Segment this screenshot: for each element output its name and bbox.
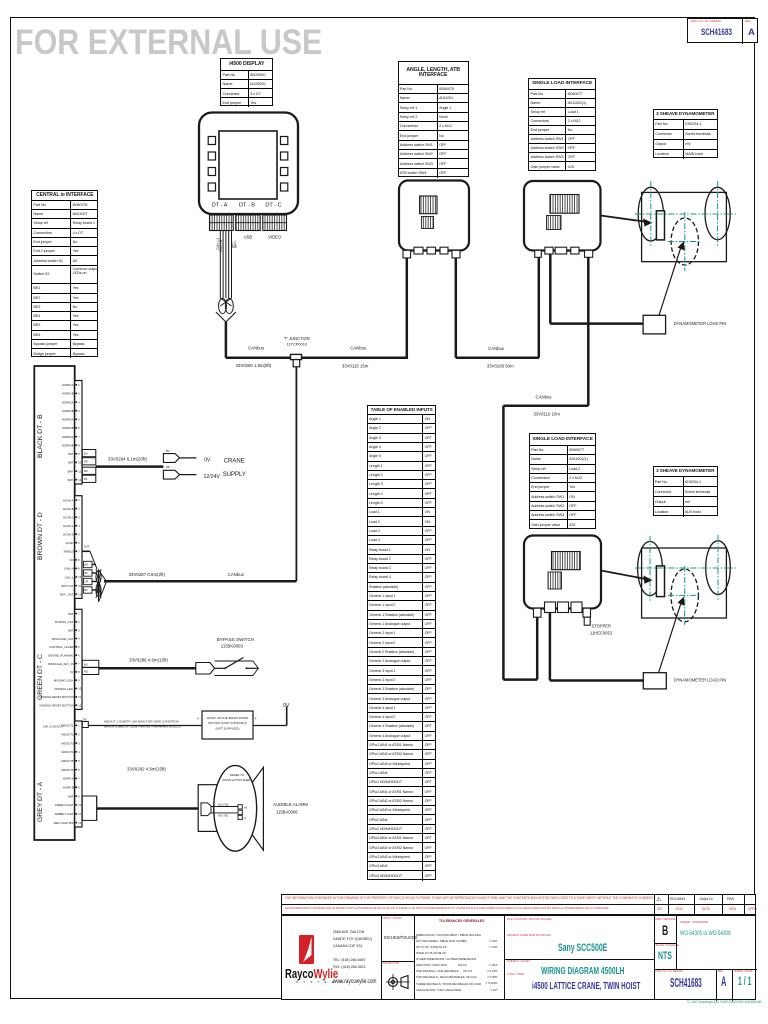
svg-text:HORN4B: HORN4B <box>62 443 74 447</box>
svg-text:BN: BN <box>85 564 89 567</box>
svg-text:HORN2B: HORN2B <box>62 409 74 413</box>
3 sheave dynamometer MAIN hoist <box>638 187 730 265</box>
svg-text:HIDOUT5: HIDOUT5 <box>61 759 74 763</box>
svg-text:(WHICH COMES UP CB 88 THAN: (WHICH COMES UP CB 88 THAN A/B THWANPAWS… <box>104 724 181 728</box>
svg-text:HORN3A: HORN3A <box>62 418 74 422</box>
disclaimer notice band <box>281 894 756 915</box>
dynamometer load pin box AUX <box>643 597 726 689</box>
svg-text:1155K0003: 1155K0003 <box>221 644 244 649</box>
svg-text:11HEC0053: 11HEC0053 <box>590 631 613 636</box>
svg-text:HIDOUT4: HIDOUT4 <box>61 750 74 754</box>
svg-text:BLACK DT - B: BLACK DT - B <box>37 414 44 458</box>
svg-text:RD: RD <box>84 670 88 674</box>
svg-text:HIDOUT 1 IS BATT+ (6A MAX) FOR: HIDOUT 1 IS BATT+ (6A MAX) FOR SAFE COND… <box>104 719 179 723</box>
svg-text:0V: 0V <box>283 703 290 709</box>
table: ANGLE LENGTH ATB INTERFACE <box>398 61 469 177</box>
wire SL2 mV to dynamometer load pin AUX <box>550 613 643 681</box>
wire 33V0294 crane supply <box>96 456 164 466</box>
svg-text:DT - A: DT - A <box>212 203 228 209</box>
svg-text:BU: BU <box>84 452 88 456</box>
svg-text:HORN1B: HORN1B <box>62 392 74 396</box>
svg-text:33V0287 0.6m(2ft): 33V0287 0.6m(2ft) <box>129 572 166 577</box>
svg-text:LMI LOCKOUT: LMI LOCKOUT <box>43 725 64 729</box>
svg-text:CAN_L: CAN_L <box>65 575 74 579</box>
svg-text:BU: BU <box>84 662 88 666</box>
svg-text:BN: BN <box>84 469 88 473</box>
title block <box>281 915 756 1000</box>
svg-text:BAT+: BAT+ <box>234 240 238 248</box>
svg-text:HCAN: HCAN <box>66 541 74 545</box>
svg-text:BAT-: BAT- <box>68 469 74 473</box>
svg-text:MISSING LED+: MISSING LED+ <box>54 679 74 683</box>
pin strip DT-D <box>60 496 82 599</box>
central IO relay module U5 <box>34 366 74 840</box>
display connector DT-A (pins) <box>210 215 234 231</box>
pin strip DT-C <box>40 609 82 709</box>
svg-text:BAT-OUT: BAT-OUT <box>62 584 74 588</box>
dynamometer load pin box MAIN <box>643 241 726 334</box>
svg-text:CANbus: CANbus <box>248 346 264 351</box>
svg-text:BAT: BAT <box>68 461 74 465</box>
svg-text:BYPASS SWITCH: BYPASS SWITCH <box>217 637 254 642</box>
svg-text:SCR: SCR <box>84 546 89 549</box>
wire tag on DT-C bypass pins <box>82 660 99 674</box>
angle/length/ATB interface module U2 <box>399 181 469 258</box>
svg-text:CANbus: CANbus <box>488 346 504 351</box>
svg-text:+: + <box>197 716 200 721</box>
svg-text:HORN1A: HORN1A <box>62 383 74 387</box>
svg-text:INSTALLATION SHEET: INSTALLATION SHEET <box>222 778 252 782</box>
wire angle module pin to CANbus seg1 <box>406 258 409 358</box>
svg-text:OR: OR <box>85 581 89 584</box>
svg-text:CRANE: CRANE <box>224 459 245 465</box>
svg-text:CAN_H1: CAN_H1 <box>219 239 223 252</box>
svg-text:HORN4A: HORN4A <box>62 435 74 439</box>
display connector DT-C / VIDEO <box>263 215 287 240</box>
stopper connector 11HEC0053 <box>583 608 613 635</box>
svg-text:USB: USB <box>244 235 253 240</box>
wire angle module pin to CANbus seg2 <box>455 258 458 358</box>
svg-text:33V0260 1.5m(5ft): 33V0260 1.5m(5ft) <box>236 363 272 368</box>
bypass switch 1155K0003 <box>196 637 258 676</box>
svg-text:HIDOUT2: HIDOUT2 <box>61 733 74 737</box>
table: TABLE OF ENABLED INPUTS <box>367 405 437 880</box>
i4500 display unit U1 <box>199 113 298 215</box>
pin strip DT-B <box>62 381 82 485</box>
svg-text:RD: RD <box>83 717 87 721</box>
svg-text:NC: NC <box>70 558 74 562</box>
svg-text:33V0110 10m: 33V0110 10m <box>534 412 561 417</box>
svg-text:SUPPLY: SUPPLY <box>223 472 246 478</box>
svg-text:115BA0006: 115BA0006 <box>276 810 298 815</box>
svg-text:REFER TO: REFER TO <box>230 773 245 777</box>
table: SINGLE LOAD INTERFACE 2 <box>529 433 596 529</box>
wire HIDOUT1 to motion stop controls <box>88 725 202 727</box>
wire CANbus 33V0287 <box>104 572 296 581</box>
crane supply wire tags on DT-B <box>82 450 96 483</box>
top-right DWG number box <box>687 18 758 44</box>
svg-text:BROWN DT - D: BROWN DT - D <box>37 512 44 560</box>
arrow SL2 to AUX dynamometer sensor <box>601 571 653 584</box>
svg-text:GREEN LIGHT: GREEN LIGHT <box>55 803 74 807</box>
twisted pair splice node below display <box>216 298 236 358</box>
project / title cell <box>654 916 655 999</box>
table: i4500 DISPLAY <box>220 58 273 106</box>
svg-text:BAT: BAT <box>68 794 74 798</box>
twisted pair splice to CANbus DT-D <box>96 569 107 602</box>
svg-text:0V: 0V <box>70 670 74 674</box>
svg-text:CAN_H: CAN_H <box>64 567 73 571</box>
single load interface module U3 (load 1) <box>524 181 601 257</box>
svg-text:SHIELD: SHIELD <box>63 550 73 554</box>
svg-text:RED LIGHT B/Z: RED LIGHT B/Z <box>54 821 74 825</box>
svg-text:MISSCALE_KEY_IN: MISSCALE_KEY_IN <box>48 662 74 666</box>
svg-text:BAT: BAT <box>68 452 74 456</box>
0V terminal <box>283 703 290 726</box>
svg-text:RD: RD <box>166 465 170 469</box>
svg-text:(NOT SUPPLIED): (NOT SUPPLIED) <box>216 727 240 731</box>
svg-text:RD (-VE): RD (-VE) <box>218 815 228 818</box>
svg-text:HCAN-2: HCAN-2 <box>63 515 74 519</box>
svg-text:HCAN-0: HCAN-0 <box>63 533 74 537</box>
wire 33V0286 to bypass switch <box>99 658 196 669</box>
svg-text:BAT-_OUT: BAT-_OUT <box>60 592 74 596</box>
svg-text:BYPASS_OUT: BYPASS_OUT <box>55 620 74 624</box>
centerlines AUX dynamometer <box>635 535 736 625</box>
svg-text:33V0115 15m: 33V0115 15m <box>342 363 369 368</box>
svg-text:33V0160 50m: 33V0160 50m <box>487 363 514 368</box>
note HIDOUT1 safe condition <box>104 719 181 728</box>
svg-text:MOTION STOP CONTROLS: MOTION STOP CONTROLS <box>208 721 246 725</box>
svg-text:0V: 0V <box>204 457 211 463</box>
svg-text:BK: BK <box>85 589 89 592</box>
svg-text:HCAN-B: HCAN-B <box>63 507 74 511</box>
logo cell <box>381 916 382 999</box>
revision / scale cells <box>676 916 677 969</box>
svg-text:CANbus: CANbus <box>350 346 366 351</box>
wire CANbus 33V0260 display to T junction <box>226 346 408 369</box>
3 sheave dynamometer AUX hoist <box>638 541 731 622</box>
'T' junction 11TCP0010 <box>284 336 310 367</box>
display connector DT-B / USB <box>236 215 261 240</box>
bottom row: dwg no / rev / sheet <box>654 969 757 970</box>
svg-text:HOIST UP AND BOOM DOWN: HOIST UP AND BOOM DOWN <box>207 716 248 720</box>
crane supply terminals <box>163 449 196 479</box>
svg-text:BAT: BAT <box>68 628 74 632</box>
svg-text:MISSING RESET BUTTON: MISSING RESET BUTTON <box>40 704 74 708</box>
audible alarm 115BA0006 <box>198 766 263 852</box>
svg-text:DYNAMOMETER LOAD PIN: DYNAMOMETER LOAD PIN <box>674 321 727 326</box>
svg-text:VIDEO: VIDEO <box>268 235 282 240</box>
svg-text:ENGINE_RUNNING: ENGINE_RUNNING <box>48 653 73 657</box>
wire tag alarm pins <box>82 796 96 820</box>
svg-text:STOPPER: STOPPER <box>592 624 612 629</box>
label CRANE SUPPLY <box>223 459 246 479</box>
wire tag HIDOUT1 <box>82 717 88 727</box>
svg-text:+: + <box>254 716 257 721</box>
wire CANbus 33V0160 50m <box>456 346 539 368</box>
wire CANbus 33V0110 10m SL1 to SL2 <box>503 257 588 679</box>
svg-text:HORN3B: HORN3B <box>62 426 74 430</box>
label AUDIBLE ALARM <box>273 802 308 815</box>
single load interface module U4 (load 2) <box>524 536 601 618</box>
svg-text:DT - C: DT - C <box>265 203 281 209</box>
svg-text:BK: BK <box>84 477 88 481</box>
table: 3 SHEAVE DYNAMOMETER AUX <box>653 466 719 517</box>
svg-text:HIDOUT3: HIDOUT3 <box>61 741 74 745</box>
svg-text:CANbus: CANbus <box>228 572 244 577</box>
svg-text:HORN A: HORN A <box>63 777 74 781</box>
wire motion stop to 0V terminal <box>253 725 287 727</box>
svg-text:DT - B: DT - B <box>239 203 255 209</box>
svg-text:33V0286 4.6m(15ft): 33V0286 4.6m(15ft) <box>129 658 168 663</box>
svg-text:33V0292 4.6m(15ft): 33V0292 4.6m(15ft) <box>127 767 166 772</box>
svg-text:GREY DT - A: GREY DT - A <box>37 781 44 822</box>
arrow SL1 to MAIN dynamometer sensor <box>601 216 653 227</box>
motion stop controls box (not supplied) <box>197 711 258 739</box>
svg-text:CANbus: CANbus <box>536 395 552 400</box>
centerlines MAIN dynamometer <box>635 181 736 271</box>
inches/pouces + projection cell <box>414 916 415 999</box>
wire SL1 mV to dynamometer load pin MAIN <box>550 254 643 324</box>
wire from T junction down to DT-D CANbus <box>295 367 297 581</box>
pin strip DT-A <box>54 721 82 827</box>
watermark FOR EXTERNAL USE <box>15 25 322 62</box>
svg-text:MISSING RESET BUTTON: MISSING RESET BUTTON <box>40 695 74 699</box>
svg-text:AUDIBLE ALARM: AUDIBLE ALARM <box>273 802 308 807</box>
tolerances cell <box>504 916 505 999</box>
wire 33V0292 to audible alarm <box>97 767 201 809</box>
svg-text:HCAN-A: HCAN-A <box>63 498 74 502</box>
svg-text:HCAN-1: HCAN-1 <box>63 524 74 528</box>
copyright note <box>687 1001 761 1005</box>
table: CENTRAL io INTERFACE <box>31 190 98 357</box>
svg-text:BU (+VE): BU (+VE) <box>218 803 228 806</box>
svg-text:BU: BU <box>85 572 89 575</box>
svg-text:HORN B: HORN B <box>63 786 74 790</box>
svg-text:HORN2A: HORN2A <box>62 400 74 404</box>
svg-text:BAT: BAT <box>68 612 74 616</box>
svg-text:RD: RD <box>84 460 88 464</box>
table: SINGLE LOAD INTERFACE 1 <box>528 78 596 171</box>
svg-text:MISSCALE_OUT: MISSCALE_OUT <box>52 637 74 641</box>
svg-text:+B: +B <box>244 806 247 809</box>
svg-text:MISSING LED-: MISSING LED- <box>55 687 74 691</box>
wire SL1 pin to CANbus seg2 <box>538 257 541 358</box>
svg-text:CONTROL_LEVER: CONTROL_LEVER <box>49 645 73 649</box>
svg-text:33V0294 6.1m(20ft): 33V0294 6.1m(20ft) <box>108 456 147 461</box>
svg-text:12/24V: 12/24V <box>204 474 221 480</box>
svg-text:11TCP0010: 11TCP0010 <box>287 341 308 346</box>
wires from display DT-A to CAN junction <box>216 231 238 298</box>
svg-text:AMBER LIGHT: AMBER LIGHT <box>55 812 74 816</box>
svg-text:G: G <box>244 817 246 820</box>
svg-text:BAT-: BAT- <box>68 478 74 482</box>
svg-text:BU: BU <box>166 449 170 453</box>
svg-text:HIDOUT6: HIDOUT6 <box>61 768 74 772</box>
svg-text:DYNAMOMETER LOAD PIN: DYNAMOMETER LOAD PIN <box>674 677 727 682</box>
svg-text:GREEN DT - C: GREEN DT - C <box>37 654 44 700</box>
wire tags on DT-D CAN pins <box>82 546 97 594</box>
table: 3 SHEAVE DYNAMOMETER MAIN <box>653 109 718 158</box>
